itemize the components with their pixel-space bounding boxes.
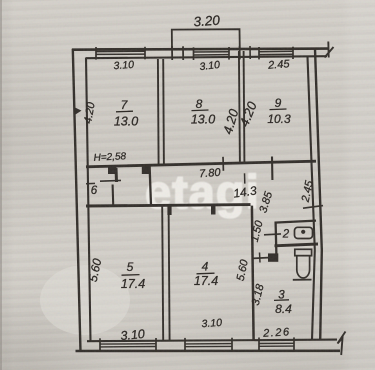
- wall: right exterior inner line: [308, 57, 315, 340]
- sink in room 2: [295, 227, 313, 238]
- window W3 top (room 9, 2.45): [259, 47, 293, 60]
- door jamb stub room 4: [211, 204, 216, 215]
- corner tick bottom-right: [338, 332, 346, 356]
- partition rooms 5/4: [162, 206, 163, 342]
- tick 7.80 on wall A: [222, 157, 224, 171]
- tick on top wall x=250: [249, 46, 251, 59]
- dim 4.20 left of partition 8/9: [220, 107, 242, 136]
- dim 4.20 right of partition 8/9: [236, 99, 260, 129]
- door jamb room 7 right: [142, 166, 151, 174]
- scan edge shading left: [0, 0, 2, 370]
- balcony door jamb tick: [171, 46, 173, 60]
- room 9 fraction line: [270, 108, 287, 111]
- wall: top exterior outer line: [72, 49, 329, 50]
- room 2 bottom wall: [275, 244, 319, 246]
- dim 3.85: [257, 190, 275, 215]
- dim 2.26 room 3 bottom: [262, 326, 291, 339]
- dim 3.20 balcony: [193, 13, 221, 30]
- room 2 top wall: [275, 221, 317, 223]
- arrow on left wall: [75, 107, 82, 115]
- door line to room 3: [253, 257, 269, 260]
- door jamb room 3: [268, 253, 278, 261]
- right wall tick y=206: [303, 206, 323, 209]
- wall A: bottom of room 9: [255, 161, 316, 162]
- wall: left exterior inner line: [86, 58, 91, 342]
- tick 14.3 below wall A: [244, 173, 246, 183]
- partition rooms 4/3: [252, 206, 254, 341]
- hall area 14.3: [232, 183, 257, 200]
- tick on top wall near partition 8/9: [239, 46, 241, 60]
- wall B: top of rooms 5/4: [86, 205, 251, 206]
- door tick room 2: [264, 233, 281, 236]
- dim 3.10 room 7: [113, 59, 134, 72]
- window W2 top (room 8, 3.10): [194, 47, 230, 60]
- wall A: bottom of rooms 7/8: [86, 163, 255, 167]
- dim 2.45 right wall: [299, 179, 316, 204]
- small tick left wall: [86, 182, 95, 184]
- window W1 top (room 7, 3.10): [96, 47, 145, 60]
- door jamb stub room 5: [167, 205, 171, 216]
- wall: bottom exterior inner line: [87, 340, 337, 342]
- room 4 fraction line: [197, 272, 215, 275]
- wall: top exterior inner line: [86, 56, 327, 58]
- note H=2.58: [93, 151, 126, 164]
- corridor-left wall: [150, 166, 151, 206]
- sink dot: [301, 230, 305, 234]
- wall: right exterior outer line: [315, 49, 322, 340]
- room 2 left wall: [274, 222, 277, 255]
- room 8 fraction line: [192, 109, 209, 112]
- wall: left exterior outer line: [73, 49, 81, 352]
- window W4 bottom room 5: [100, 343, 156, 345]
- dim 2.45 room 9: [267, 58, 291, 72]
- dim 3.18 room 3: [250, 282, 267, 307]
- corner tick top-right: [327, 42, 329, 58]
- partition rooms 8/9: [239, 51, 240, 162]
- watermark etagi: [0, 0, 1, 1]
- window W6 bottom room 3: [259, 342, 294, 344]
- room 3 fraction line: [274, 299, 289, 302]
- toilet tank: [295, 249, 312, 255]
- dim 1.50: [249, 219, 266, 244]
- dim 4.20 left wall: [82, 100, 98, 124]
- dim 5.60 room 4: [235, 258, 251, 282]
- dim 5.60 room 5: [86, 257, 105, 283]
- room 6 right wall lower: [112, 185, 115, 205]
- door stub room 9: [271, 157, 273, 181]
- door jamb room 7 left: [108, 166, 117, 174]
- room 6 right wall upper: [115, 168, 119, 182]
- balcony outline 3.20: [172, 29, 240, 50]
- toilet base line: [293, 279, 312, 281]
- room 5 fraction line: [122, 274, 140, 277]
- dim 7.80 hall: [199, 167, 222, 181]
- wall: bottom exterior outer line: [76, 349, 341, 352]
- partition rooms 7/8: [157, 59, 160, 165]
- dim 3.10 room 4 bottom: [201, 317, 222, 330]
- room 6 door tick: [100, 179, 121, 182]
- dim 3.10 room 5 bottom: [120, 327, 146, 343]
- bottom wall window hatches: [100, 337, 294, 352]
- window W5 bottom room 4: [185, 343, 232, 345]
- room 7 fraction line: [116, 110, 133, 113]
- dim 3.10 room 8: [199, 59, 221, 73]
- toilet bowl: [297, 256, 310, 278]
